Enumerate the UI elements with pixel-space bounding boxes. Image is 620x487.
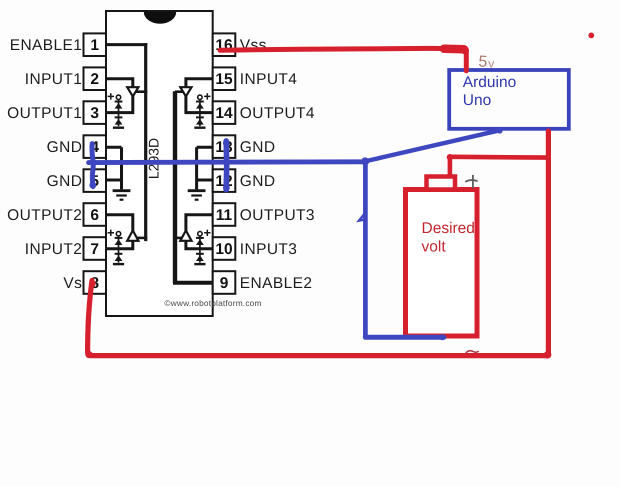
svg-text:volt: volt — [422, 239, 447, 256]
svg-text:v: v — [488, 57, 494, 71]
svg-text:ENABLE1: ENABLE1 — [10, 37, 83, 54]
svg-text:ENABLE2: ENABLE2 — [240, 275, 313, 292]
svg-text:3: 3 — [90, 105, 99, 122]
svg-text:Arduino: Arduino — [463, 74, 516, 91]
svg-text:INPUT2: INPUT2 — [25, 241, 83, 258]
svg-text:10: 10 — [215, 241, 232, 258]
svg-text:GND: GND — [47, 173, 83, 190]
svg-text:5: 5 — [478, 53, 488, 71]
svg-text:7: 7 — [90, 241, 99, 258]
svg-text:INPUT1: INPUT1 — [25, 71, 83, 88]
svg-text:2: 2 — [90, 71, 99, 88]
svg-text:Vs: Vs — [63, 275, 82, 292]
svg-text:L293D: L293D — [146, 138, 162, 179]
svg-text:OUTPUT4: OUTPUT4 — [240, 105, 315, 122]
svg-text:11: 11 — [216, 207, 233, 224]
svg-text:OUTPUT2: OUTPUT2 — [7, 207, 82, 224]
svg-text:9: 9 — [220, 275, 229, 292]
svg-text:INPUT3: INPUT3 — [240, 241, 298, 258]
svg-text:GND: GND — [47, 139, 83, 156]
svg-text:14: 14 — [215, 105, 233, 122]
svg-text:©www.robotplatform.com: ©www.robotplatform.com — [164, 298, 261, 308]
svg-text:Uno: Uno — [463, 92, 491, 109]
svg-text:OUTPUT3: OUTPUT3 — [240, 207, 315, 224]
svg-text:INPUT4: INPUT4 — [240, 71, 298, 88]
svg-text:GND: GND — [240, 173, 276, 190]
svg-text:6: 6 — [90, 207, 99, 224]
svg-text:1: 1 — [90, 37, 99, 54]
svg-text:OUTPUT1: OUTPUT1 — [7, 105, 82, 122]
svg-text:GND: GND — [240, 139, 276, 156]
svg-text:15: 15 — [215, 71, 233, 88]
svg-text:Desired: Desired — [422, 220, 475, 237]
